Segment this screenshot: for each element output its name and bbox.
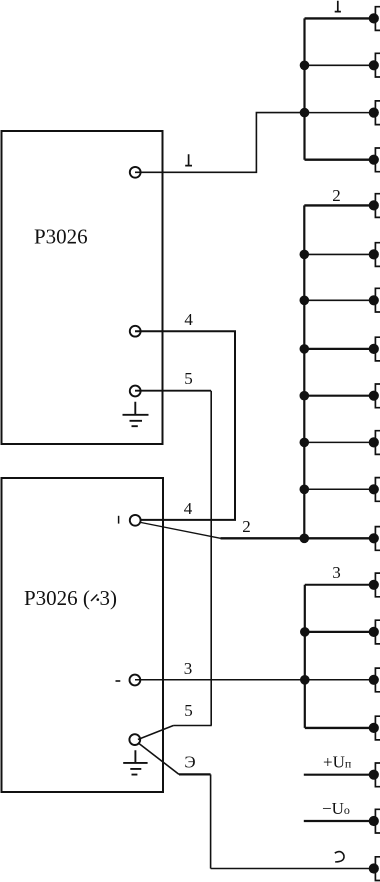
bus 1 line b — [305, 64, 375, 66]
wire +Up — [304, 774, 374, 776]
wire E slope from pin5 P3026(d3) — [138, 743, 179, 775]
bus 2 line f — [304, 441, 374, 443]
terminal dot row 10 — [369, 437, 379, 447]
wire pin5 P3026 horizontal — [135, 390, 211, 392]
terminal dot row 2 — [369, 60, 379, 70]
label group 1 — [335, 1, 341, 12]
bus 1 line a — [305, 17, 375, 19]
junction dot bus2 f — [300, 438, 310, 448]
svg-text:3: 3 — [332, 563, 341, 582]
bus 2 line b — [304, 253, 374, 255]
junction dot bus2 b — [300, 250, 310, 260]
wire pin5 vertical run — [210, 391, 212, 726]
terminal dot row 18 — [369, 816, 379, 826]
terminal dot row 1 — [369, 13, 379, 23]
bus 2 line c — [304, 299, 374, 301]
bus 2 line h (wire 2 run) — [221, 537, 375, 539]
terminal circle pin 1 P3026 — [130, 167, 141, 178]
wire 2 slope from pin4 P3026(d3) — [141, 523, 221, 539]
svg-text:2: 2 — [332, 186, 341, 205]
terminal circle pin 5 P3026 — [130, 386, 141, 397]
polarity tick at pin 4 P3026(d3) — [118, 516, 120, 524]
bus 2 line a — [304, 204, 374, 206]
wire 5 lower horizontal — [173, 725, 211, 727]
svg-text:Э: Э — [184, 753, 195, 772]
junction dot bus2 c — [300, 296, 310, 306]
terminal dot row 14 — [369, 627, 379, 637]
terminal dot row 17 — [369, 770, 379, 780]
terminal circle pin 4 P3026 — [130, 326, 141, 337]
ground symbol at pin 5 P3026 — [123, 402, 149, 426]
wire 5 slope to pin5 P3026(d3) — [138, 726, 174, 740]
terminal dot row 15 — [369, 675, 379, 685]
terminal dot row 13 — [369, 580, 379, 590]
terminal dot row 4 — [369, 155, 379, 165]
wire pin4 P3026 to pin4 P3026(d3) — [135, 331, 235, 520]
terminal dot row 19 — [369, 863, 379, 873]
terminal circle pin 3 P3026(d3) — [130, 675, 141, 686]
wire -Uo — [304, 820, 374, 822]
bus 1 line d — [305, 158, 375, 160]
junction dot bus2 d — [300, 344, 310, 354]
terminal dot row 8 — [369, 344, 379, 354]
svg-text:5: 5 — [184, 369, 193, 388]
bus 2 line d — [304, 348, 374, 350]
svg-text:Р3026: Р3026 — [34, 224, 88, 248]
terminal dot row 6 — [369, 249, 379, 259]
junction dot bus3 c — [300, 675, 310, 685]
wire pin1 P3026 to bus 1 — [135, 113, 305, 173]
svg-text:Р3026 (: Р3026 ( — [24, 586, 90, 610]
terminal dot row 12 — [369, 533, 379, 543]
minus sign at pin 3 — [116, 680, 121, 682]
terminal dot row 11 — [369, 484, 379, 494]
svg-text:2: 2 — [242, 517, 251, 536]
wire pin3 P3026(d3) to bus 3 and terminal — [135, 679, 374, 681]
bus 2 line e — [304, 395, 374, 397]
bus 1 line c — [305, 112, 375, 114]
svg-text:3: 3 — [184, 659, 193, 678]
label 1 at pin1 — [185, 154, 192, 165]
junction dot bus1 c — [300, 108, 310, 118]
box P3026 (unit 1) — [2, 131, 163, 444]
terminal dot row 16 — [369, 723, 379, 733]
svg-text:5: 5 — [184, 701, 193, 720]
terminal dot row 9 — [369, 391, 379, 401]
wire E vertical down — [210, 774, 212, 868]
bus 2 vertical — [303, 205, 305, 538]
svg-text:3): 3) — [100, 586, 118, 610]
bus 3 line b — [305, 631, 374, 633]
junction dot bus3 b — [300, 627, 310, 637]
wire E bottom run to terminal — [211, 868, 374, 870]
junction dot bus2 e — [300, 391, 310, 401]
junction dot bus2 h — [300, 534, 310, 544]
slash-3 glyph in box2 label — [91, 595, 97, 602]
bus 2 line g — [304, 488, 374, 490]
right connector terminals: dots and brackets — [369, 7, 380, 881]
bus 3 vertical — [304, 585, 306, 728]
svg-text:4: 4 — [184, 310, 193, 329]
bus 3 line d — [305, 727, 374, 729]
terminal dot row 5 — [369, 200, 379, 210]
terminal dot row 3 — [369, 108, 379, 118]
bus 3 line a — [305, 584, 374, 586]
junction dot bus2 g — [300, 485, 310, 495]
junction dot bus1 b — [300, 61, 310, 71]
box P3026 (d3) (unit 2) — [2, 478, 164, 792]
terminal dot row 7 — [369, 295, 379, 305]
wire E horizontal — [179, 773, 211, 775]
label C (reversed) at bottom terminal — [335, 852, 344, 862]
bus 1 vertical — [303, 18, 305, 159]
terminal circle pin 4 P3026(d3) — [130, 515, 141, 526]
terminal circle pin 5 P3026(d3) — [129, 734, 140, 745]
svg-text:4: 4 — [184, 499, 193, 518]
ground symbol at pin 5 P3026(d3) — [123, 750, 147, 774]
